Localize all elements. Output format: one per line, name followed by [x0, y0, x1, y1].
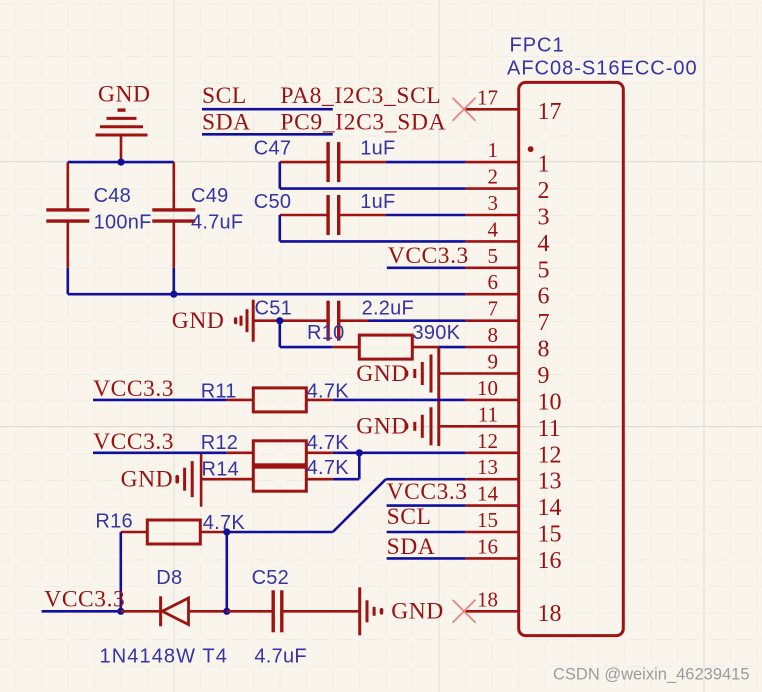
svg-text:3: 3: [538, 205, 550, 231]
svg-text:C50: C50: [254, 191, 291, 213]
wire C48/C49 top rail: [68, 161, 174, 164]
svg-text:PC9_I2C3_SDA: PC9_I2C3_SDA: [280, 110, 446, 136]
svg-text:GND: GND: [172, 308, 225, 334]
connector pin 6: [465, 270, 549, 310]
connector pin 10: [465, 376, 561, 416]
net label SCL with wire: [202, 83, 333, 109]
connector FPC1 AFC08-S16ECC-00 body U-rect: [507, 35, 698, 636]
svg-text:4.7K: 4.7K: [307, 457, 350, 479]
svg-text:C47: C47: [254, 138, 291, 160]
svg-text:C49: C49: [191, 185, 228, 207]
wire R14 left to GND line: [201, 478, 253, 481]
net label SDA pin 16 with wire: [387, 534, 466, 560]
net label SDA with wire: [202, 110, 333, 136]
svg-text:14: 14: [477, 482, 499, 506]
capacitor C51: [253, 298, 414, 341]
connector pin 1: [465, 138, 549, 178]
svg-text:6: 6: [488, 270, 499, 294]
svg-text:18: 18: [477, 587, 498, 611]
power ground at pin 11: [356, 407, 465, 445]
connector pin 16: [465, 534, 561, 574]
svg-text:12: 12: [477, 429, 498, 453]
power ground at C51: [172, 300, 253, 342]
connector pin 14: [465, 482, 561, 521]
connector pin 3: [465, 191, 549, 231]
svg-text:C52: C52: [252, 567, 289, 589]
wire R10 right to pin 8: [439, 346, 466, 349]
svg-text:14: 14: [538, 495, 562, 521]
svg-text:18: 18: [538, 601, 562, 627]
svg-text:VCC3.3: VCC3.3: [387, 479, 468, 505]
capacitor C49: [152, 162, 243, 268]
svg-text:GND: GND: [356, 361, 409, 387]
svg-text:17: 17: [538, 99, 562, 125]
connector pin 13: [465, 455, 561, 495]
resistor R12: [201, 432, 350, 465]
svg-text:10: 10: [477, 376, 498, 400]
power label VCC3.3 at R12 with wire: [93, 429, 227, 455]
power label VCC3.3 pin 5 with wire: [387, 243, 469, 269]
resistor R10: [307, 322, 461, 359]
svg-text:8: 8: [538, 337, 550, 363]
no-ERC marker X on pin 17: [453, 98, 476, 121]
connector pin 18: [465, 587, 561, 627]
connector pin 9: [465, 350, 549, 390]
svg-text:PA8_I2C3_SCL: PA8_I2C3_SCL: [280, 83, 441, 109]
wire R16 junction down to diode row: [226, 532, 229, 611]
power ground at R14: [121, 454, 202, 507]
wire C47 left down to pin 2 row: [278, 162, 281, 189]
svg-text:VCC3.3: VCC3.3: [44, 586, 125, 612]
power label VCC3.3 bottom with wire: [42, 586, 126, 612]
node junction C51 left / R10 branch: [276, 317, 283, 324]
power ground at C52: [360, 587, 444, 635]
svg-text:16: 16: [477, 534, 498, 558]
wire C50 right to pin 3: [386, 214, 466, 217]
wire C50 left down to pin 4 row: [278, 215, 281, 241]
node junction diode cathode / VCC3.3: [117, 608, 124, 615]
svg-text:1uF: 1uF: [360, 191, 395, 213]
wire C49 bottom stub: [173, 268, 176, 294]
connector pin 7: [465, 297, 549, 337]
diode D8 1N4148W: [100, 567, 228, 667]
wire R12 right to pin 12: [333, 451, 466, 454]
svg-text:390K: 390K: [413, 322, 461, 344]
svg-text:1: 1: [488, 138, 499, 162]
wire C51 junction down to R10 row: [278, 321, 281, 347]
svg-text:9: 9: [488, 350, 499, 374]
wire pin 13 net: [386, 478, 466, 481]
power ground symbol top-left: [96, 82, 151, 163]
svg-text:16: 16: [538, 548, 562, 574]
svg-text:7: 7: [538, 310, 550, 336]
svg-text:SDA: SDA: [387, 534, 436, 560]
wire pin 2 net: [280, 187, 466, 190]
svg-text:R10: R10: [307, 322, 344, 344]
svg-text:R11: R11: [201, 381, 237, 403]
svg-text:VCC3.3: VCC3.3: [388, 243, 469, 269]
wire R10 row left segment: [280, 346, 333, 349]
node junction diode anode / C52: [223, 608, 230, 615]
svg-text:4.7K: 4.7K: [307, 432, 350, 454]
svg-text:C48: C48: [94, 185, 131, 207]
no-ERC marker X on pin 18: [453, 600, 476, 623]
svg-text:FPC1: FPC1: [510, 35, 565, 57]
svg-text:100nF: 100nF: [94, 212, 152, 234]
connector pin 11: [465, 402, 560, 442]
svg-text:SCL: SCL: [202, 83, 247, 109]
svg-text:6: 6: [538, 284, 550, 310]
svg-text:C51: C51: [255, 298, 292, 320]
connector pin 12: [465, 429, 561, 469]
svg-text:7: 7: [488, 297, 499, 321]
wire C47 right to pin 1: [386, 161, 466, 164]
svg-text:1N4148W T4: 1N4148W T4: [100, 646, 228, 668]
svg-text:17: 17: [477, 85, 498, 109]
connector pin 17: [465, 85, 561, 125]
node junction C49 / rail: [170, 291, 177, 298]
node junction top GND to rail: [117, 159, 124, 166]
svg-text:GND: GND: [98, 82, 151, 108]
svg-text:GND: GND: [356, 414, 409, 440]
svg-text:11: 11: [538, 416, 561, 442]
svg-text:4.7uF: 4.7uF: [254, 646, 306, 668]
svg-text:9: 9: [538, 363, 550, 389]
svg-text:GND: GND: [391, 599, 444, 625]
svg-text:10: 10: [538, 389, 562, 415]
resistor R14: [202, 457, 350, 491]
svg-text:R14: R14: [202, 458, 239, 480]
svg-text:15: 15: [538, 522, 562, 548]
node junction R16 right: [223, 528, 230, 535]
connector pin 8: [465, 323, 549, 363]
resistor R16: [95, 511, 245, 544]
power label VCC3.3 at R11 with wire: [93, 376, 227, 402]
svg-text:2: 2: [538, 178, 550, 204]
svg-text:8: 8: [488, 323, 499, 347]
svg-text:4: 4: [538, 231, 550, 257]
connector pin 15: [465, 508, 561, 548]
wire C51 right to pin 7: [368, 319, 465, 322]
svg-text:1uF: 1uF: [360, 138, 395, 160]
wire R14 right segment: [333, 478, 360, 481]
svg-text:2.2uF: 2.2uF: [362, 298, 414, 320]
svg-text:13: 13: [538, 469, 562, 495]
svg-text:1: 1: [538, 152, 550, 178]
svg-text:VCC3.3: VCC3.3: [93, 376, 174, 402]
svg-text:3: 3: [488, 191, 499, 215]
wire diagonal from R16 junction to pin 13 row: [333, 479, 386, 532]
connector pin 5: [465, 244, 549, 284]
power label VCC3.3 pin 14 with wire: [387, 479, 468, 506]
svg-text:5: 5: [488, 244, 499, 268]
wire R11 right to pin 10: [333, 399, 466, 402]
svg-text:R16: R16: [95, 511, 132, 533]
wire R16 left down to diode row: [120, 532, 123, 611]
svg-text:VCC3.3: VCC3.3: [93, 429, 174, 455]
wire R16 junction to diagonal: [227, 531, 333, 534]
wire junction down to R14 row: [358, 453, 361, 479]
svg-text:AFC08-S16ECC-00: AFC08-S16ECC-00: [507, 58, 698, 80]
svg-text:15: 15: [477, 508, 498, 532]
power ground pin-line shared (pins 9 and 11): [437, 348, 440, 446]
svg-text:GND: GND: [121, 467, 174, 493]
node junction R12/R14 branch: [356, 449, 363, 456]
capacitor C50: [254, 191, 396, 235]
connector pin 2: [465, 165, 549, 205]
svg-text:13: 13: [477, 455, 498, 479]
svg-text:12: 12: [538, 442, 562, 468]
capacitor C48: [46, 162, 151, 268]
resistor R11: [201, 381, 350, 412]
power ground at pin 9: [356, 355, 465, 393]
connector pin 4: [465, 217, 549, 257]
net label SCL pin 15 with wire: [387, 504, 466, 532]
svg-text:5: 5: [538, 257, 550, 283]
capacitor C52: [227, 567, 360, 667]
svg-text:D8: D8: [156, 567, 182, 589]
wire C48 bottom stub: [67, 268, 70, 294]
wire GND rail row6 to pin 6: [68, 293, 466, 296]
svg-text:4: 4: [488, 217, 499, 241]
wire pin 4 net: [280, 240, 466, 243]
svg-text:SCL: SCL: [387, 504, 432, 530]
svg-text:4.7uF: 4.7uF: [191, 212, 243, 234]
svg-text:CSDN @weixin_46239415: CSDN @weixin_46239415: [553, 666, 750, 684]
svg-text:11: 11: [478, 402, 498, 426]
svg-text:2: 2: [488, 165, 499, 189]
svg-text:SDA: SDA: [202, 110, 251, 136]
capacitor C47: [254, 138, 396, 183]
svg-text:R12: R12: [201, 432, 238, 454]
pin-1 marker dot inside connector: [528, 146, 534, 152]
